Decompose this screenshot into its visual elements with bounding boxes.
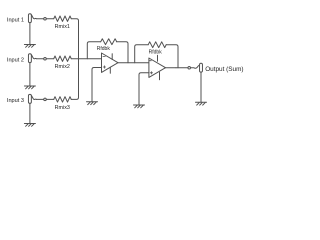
wire U1 non-inverting input to ground [92,68,102,102]
resistor Rfdbk (U2 feedback) [148,42,166,48]
resistor Rmix2 [54,56,72,61]
ground under jack J3 [29,103,31,123]
ground at U2 non-inverting input [138,104,140,106]
svg-text:Input 3: Input 3 [7,98,24,104]
svg-text:Input 2: Input 2 [7,58,24,64]
op-amp U1 power stub top [111,54,113,60]
wire Rmix2 to summing bus junction [71,58,78,60]
node circle input 3 [44,98,47,101]
op-amp U2 [149,58,166,77]
ground under output jack [200,72,202,102]
ground at U1 non-inverting input [91,101,93,103]
resistor Rfdbk (U1 feedback) [101,39,117,45]
resistor Rmix3 [54,97,72,102]
wire feedback loop U1 left leg [87,42,100,59]
svg-text:Output (Sum): Output (Sum) [205,66,243,73]
wire node to resistor Rmix2 [46,58,53,60]
output node circle [188,66,191,69]
wire feedback loop U2 right leg [166,45,178,68]
wire node to resistor Rmix3 [46,98,53,100]
input jack J3 [28,94,31,103]
ground under jack J2 [29,63,31,86]
wire U1 output to U2 inverting input [118,62,149,64]
wire node to resistor Rmix1 [46,18,53,20]
op-amp U2 power stub top [157,55,159,61]
wire U2 non-inverting input to ground [139,73,149,105]
wire feedback loop U2 left leg [135,45,149,63]
op-amp U2 power stub bottom [159,72,161,79]
jack J3 tip contact [31,95,36,99]
wire feedback loop U1 right leg [117,42,128,63]
wire Rmix3 to summing bus (corner up) [71,59,78,100]
node circle input 1 [44,17,47,20]
wire jack J1 to node [37,18,44,20]
input jack J2 [28,54,31,63]
wire U2 output to node [166,67,177,69]
jack J2 tip contact [31,55,36,59]
resistor Rmix1 [54,16,72,21]
input jack J1 [28,14,31,23]
svg-text:Rmix2: Rmix2 [55,64,70,70]
output jack J4 [200,63,203,72]
op-amp U2 minus sign [149,60,151,62]
svg-text:Rmix1: Rmix1 [55,24,70,30]
ground under jack J1 [29,23,31,45]
wire jack J3 to node [37,98,44,100]
op-amp U2 plus sign [150,72,152,74]
svg-text:Rfdbk: Rfdbk [97,46,111,52]
wire node to output jack tip [191,65,200,68]
svg-text:Rfdbk: Rfdbk [149,50,163,56]
node circle input 2 [44,57,47,60]
op-amp U1 minus sign [103,55,105,57]
svg-text:Input 1: Input 1 [7,18,24,24]
jack J1 tip contact [31,15,36,19]
wire summing bus to op-amp U1 inverting input [79,58,102,60]
op-amp U1 plus sign [103,66,105,68]
wire jack J2 to node [37,58,44,60]
op-amp U1 power stub bottom [109,67,111,73]
svg-text:Rmix3: Rmix3 [55,105,70,111]
op-amp U1 [102,53,119,72]
wire Rmix1 to summing bus (corner down) [71,19,78,59]
